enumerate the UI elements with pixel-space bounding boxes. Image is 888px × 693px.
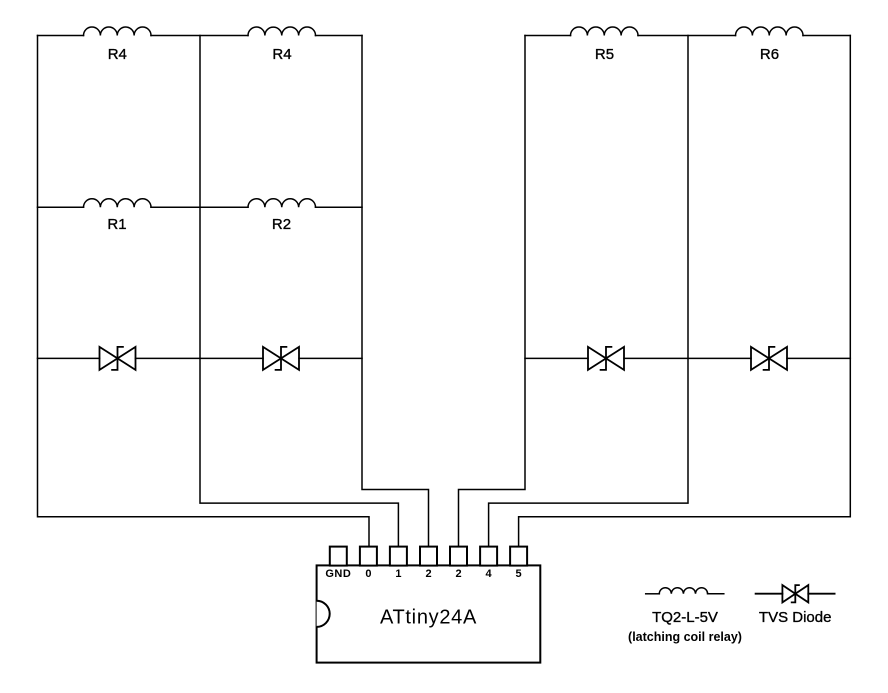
svg-text:R6: R6 (760, 46, 779, 63)
pin label 2 (425, 568, 431, 580)
TVS diode D1 (100, 347, 136, 370)
legend TVS diode symbol (756, 585, 835, 602)
label R2 (272, 216, 291, 233)
wire left middle vertical to pin 1 (200, 36, 398, 547)
pin label 5 (516, 568, 522, 580)
svg-text:2: 2 (425, 568, 431, 580)
pin 1 (390, 547, 407, 566)
wire top-left segment of right block (525, 35, 571, 37)
pin label 4 (486, 568, 493, 580)
wire R1 row middle segment (151, 206, 248, 208)
svg-text:R4: R4 (108, 46, 127, 63)
wire top-mid segment (151, 35, 248, 37)
wire left outer vertical to pin 0 (38, 36, 370, 547)
wire between R5 and R6 (638, 35, 736, 37)
IC name label ATtiny24A (380, 607, 477, 629)
IC notch (317, 601, 330, 627)
pin label GND (325, 568, 351, 580)
wire right outer vertical to pin 5 (519, 36, 851, 547)
pin label 1 (395, 568, 401, 580)
svg-text:0: 0 (365, 568, 371, 580)
wire R1 row left segment (38, 206, 84, 208)
pin 2 (420, 547, 437, 566)
wire right middle vertical to pin 4 (489, 36, 688, 547)
pin 2b (450, 547, 467, 566)
legend coil sublabel (latching coil relay) (628, 630, 742, 644)
svg-text:(latching coil relay): (latching coil relay) (628, 630, 742, 644)
relay coil R5 (571, 27, 639, 35)
svg-text:GND: GND (325, 568, 351, 580)
legend TVS label (759, 609, 832, 626)
legend coil symbol (646, 588, 724, 594)
pin GND (330, 547, 347, 566)
wire top-right segment of right block (803, 35, 850, 37)
wire right inner vertical to pin 2b (459, 36, 526, 547)
relay coil R2 (248, 199, 316, 207)
svg-text:2: 2 (455, 568, 461, 580)
TVS diode D3 (588, 347, 624, 370)
label R1 (107, 216, 126, 233)
svg-text:TQ2-L-5V: TQ2-L-5V (652, 609, 718, 626)
TVS diode D4 (751, 347, 787, 370)
relay coil R1 (84, 199, 152, 207)
svg-text:ATtiny24A: ATtiny24A (380, 607, 477, 629)
label R4 left (108, 46, 127, 63)
wire TVS row right block segments (525, 357, 850, 359)
pin label 2b (455, 568, 461, 580)
pin label 0 (365, 568, 371, 580)
pin 0 (360, 547, 377, 566)
TVS diode D2 (263, 347, 299, 370)
wire R2 row right segment (316, 206, 363, 208)
svg-text:R4: R4 (272, 46, 291, 63)
legend coil label TQ2-L-5V (652, 609, 718, 626)
label R4 right (272, 46, 291, 63)
svg-text:5: 5 (516, 568, 522, 580)
svg-text:1: 1 (395, 568, 401, 580)
svg-text:4: 4 (486, 568, 493, 580)
relay coil R4 (right) (248, 27, 316, 35)
wire top-left segment (38, 35, 84, 37)
wire top-right segment of left block (316, 35, 363, 37)
pin 4 (480, 547, 497, 566)
label R6 (760, 46, 779, 63)
svg-text:TVS Diode: TVS Diode (759, 609, 832, 626)
wire TVS row left block segments (38, 357, 363, 359)
relay coil R6 (736, 27, 804, 35)
relay coil R4 (left) (84, 27, 152, 35)
pin 5 (510, 547, 527, 566)
svg-text:R1: R1 (107, 216, 126, 233)
wire left inner vertical to pin 2 (362, 36, 429, 547)
svg-text:R2: R2 (272, 216, 291, 233)
svg-text:R5: R5 (595, 46, 614, 63)
label R5 (595, 46, 614, 63)
IC U1 ATtiny24A body (317, 565, 541, 662)
